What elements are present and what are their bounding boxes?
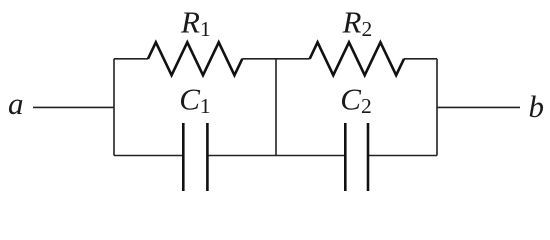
svg-text:a: a [8, 86, 24, 121]
svg-text:R1: R1 [180, 5, 211, 42]
svg-text:C1: C1 [179, 81, 210, 118]
svg-text:b: b [529, 89, 545, 124]
svg-text:R2: R2 [342, 5, 373, 42]
svg-text:C2: C2 [340, 81, 371, 118]
